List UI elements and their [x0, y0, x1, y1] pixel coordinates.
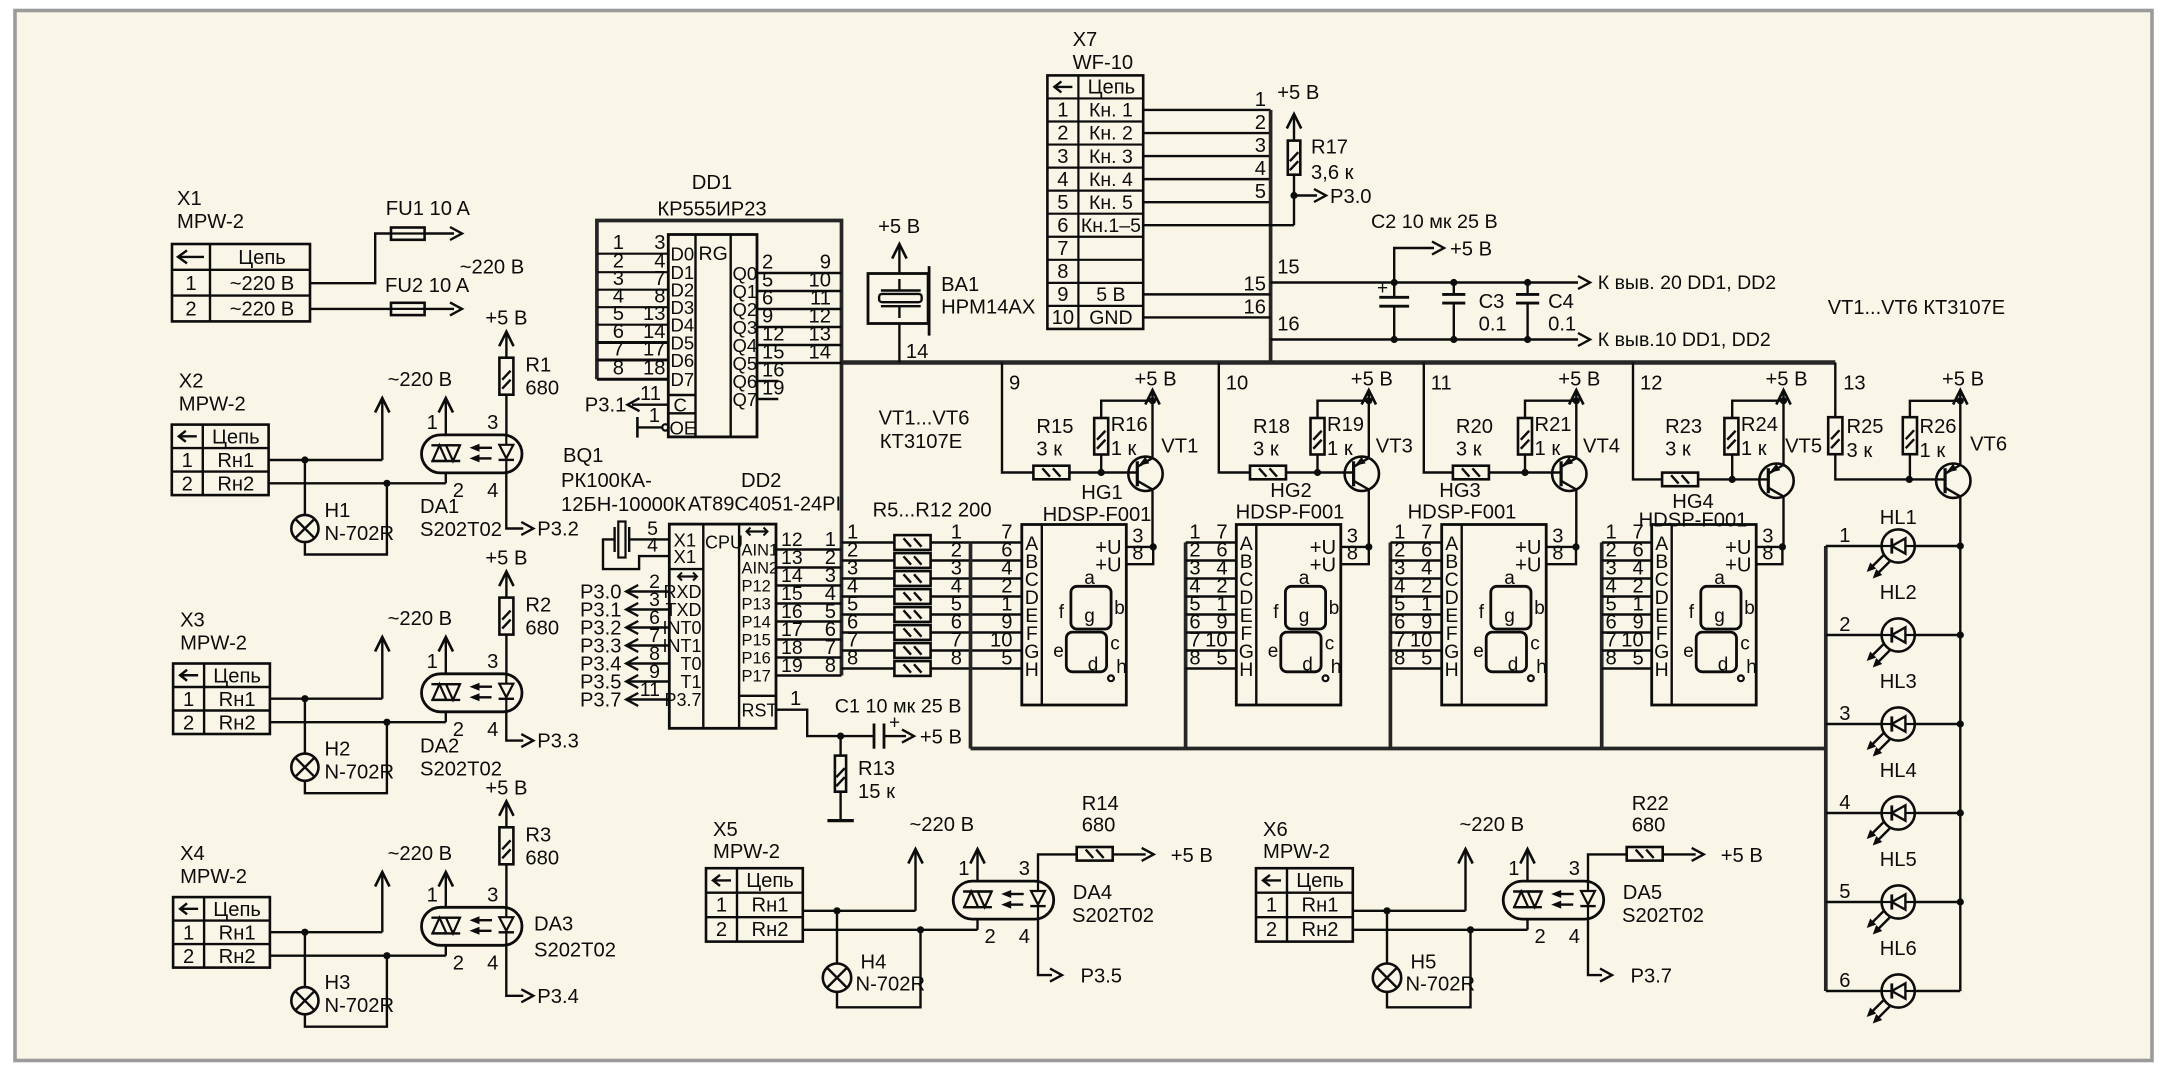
wire +5 В to resistor R2 [505, 574, 507, 598]
svg-text:1: 1 [182, 450, 193, 472]
svg-text:КТ3107Е: КТ3107Е [880, 431, 962, 453]
svg-text:+5 В: +5 В [1351, 369, 1393, 391]
lamp H5 wire tap [1386, 911, 1388, 964]
svg-text:+5 В: +5 В [1558, 369, 1600, 391]
wire +5 В arrow (VT6) [1959, 392, 1961, 401]
wire R7 to HG1 pin [931, 577, 1022, 579]
svg-text:15 к: 15 к [858, 781, 895, 803]
wire X2 pin2 (Rн2) to opto pin2 [269, 482, 446, 484]
wire net 4 to HL4 [1826, 812, 1881, 814]
svg-text:C3: C3 [1479, 291, 1505, 313]
svg-text:12: 12 [1640, 373, 1662, 395]
resistor R25 [1828, 417, 1842, 454]
wire DD1 output Q7 stub [757, 398, 778, 400]
connector X5 table [706, 868, 803, 941]
wire C2 to +5 В arrow [1394, 248, 1434, 283]
svg-text:4: 4 [1255, 158, 1266, 180]
svg-text:1 к: 1 к [1535, 438, 1561, 460]
LED HL5 [1882, 885, 1915, 918]
svg-text:Rн1: Rн1 [752, 895, 789, 917]
svg-text:+5 В: +5 В [1721, 845, 1763, 867]
svg-text:b: b [1534, 598, 1545, 619]
svg-text:g: g [1299, 606, 1310, 627]
lamp H3 wire tap [304, 932, 306, 987]
svg-text:f: f [1273, 602, 1279, 623]
svg-text:RG: RG [699, 243, 728, 265]
svg-text:+5 В: +5 В [1942, 369, 1984, 391]
svg-text:BQ1: BQ1 [563, 445, 603, 467]
LED HL3 [1882, 707, 1915, 740]
svg-text:N-702R: N-702R [325, 523, 395, 545]
wire X4 pin2 (Rн2) to opto pin2 [270, 955, 446, 957]
svg-text:DD2: DD2 [741, 470, 781, 492]
svg-text:+U: +U [1095, 555, 1121, 577]
wire R5 to HG1 pin [931, 541, 1022, 543]
svg-text:HL5: HL5 [1880, 849, 1917, 871]
wire X7 Кн.1–5 to R17 [1143, 224, 1294, 226]
svg-text:+5 В: +5 В [1171, 845, 1213, 867]
wire DD2 P16 to bus (net 7) [776, 656, 842, 658]
wire HL3 to collector rail [1916, 723, 1960, 725]
svg-text:2: 2 [185, 299, 196, 321]
svg-text:+5 В: +5 В [878, 216, 920, 238]
wire VT6 emitter [1959, 401, 1961, 465]
svg-text:X1: X1 [674, 546, 697, 567]
wire DD2 P13 to bus (net 4) [776, 602, 842, 604]
svg-text:10: 10 [1052, 307, 1074, 329]
wire resistor R3 to opto pin3 [505, 864, 507, 907]
wire ~220 arrow left (X3) [381, 639, 383, 699]
wire DD2 P17 to bus (net 8) [776, 674, 842, 676]
svg-text:c: c [1110, 634, 1120, 655]
wire net 3 to HG4 pin 4 [1602, 577, 1652, 579]
svg-text:18: 18 [643, 358, 665, 380]
svg-text:~220 В: ~220 В [1460, 814, 1525, 836]
wire HG1 +U pin8 [1126, 547, 1153, 564]
wire net 5 bus to R9 [842, 613, 895, 615]
svg-text:R2: R2 [525, 595, 551, 617]
svg-text:BA1: BA1 [941, 274, 979, 296]
svg-text:X3: X3 [180, 610, 205, 632]
svg-text:680: 680 [525, 378, 559, 400]
resistor R2 [499, 598, 513, 635]
wire X5 pin2 (Rн2) to opto pin2 [803, 929, 978, 931]
svg-text:MPW-2: MPW-2 [180, 866, 247, 888]
svg-text:1: 1 [185, 273, 196, 295]
svg-text:2: 2 [1839, 614, 1850, 636]
resistor R19 [1311, 418, 1325, 455]
optocoupler DA1 [422, 435, 523, 473]
svg-text:DA2: DA2 [420, 736, 459, 758]
wire R16 top to +5 В [1101, 401, 1152, 418]
svg-text:VT1: VT1 [1161, 436, 1198, 458]
wire opto pin1 to ~220 arrow (X5) [976, 851, 978, 881]
svg-text:DA1: DA1 [420, 496, 459, 518]
bus frame DD1 (thick) [597, 221, 842, 676]
svg-text:HG3: HG3 [1439, 480, 1481, 502]
wire net 6 to HL6 [1826, 990, 1881, 992]
resistor R10 [894, 625, 930, 640]
svg-text:Цепь: Цепь [212, 427, 260, 449]
svg-text:HL3: HL3 [1880, 671, 1917, 693]
wire opto pin4 to P3.7 [1588, 919, 1602, 975]
resistor R11 [894, 643, 930, 658]
svg-text:g: g [1504, 606, 1515, 627]
svg-text:~220 В: ~220 В [230, 273, 295, 295]
resistor R26 [1903, 417, 1917, 454]
main bus (thick) [842, 360, 1836, 365]
wire HL4 to collector rail [1916, 812, 1960, 814]
svg-text:680: 680 [525, 618, 559, 640]
wire net 1 to HG4 pin 7 [1602, 541, 1652, 543]
svg-text:h: h [1116, 657, 1127, 678]
svg-text:MPW-2: MPW-2 [1263, 841, 1330, 863]
wire DD2 P3.7 to P3.7 [626, 698, 669, 700]
display HG4 digit glyph [1701, 586, 1741, 629]
wire net 16 to К выв.10 [1271, 338, 1578, 340]
transistor VT6 [1936, 464, 1970, 498]
wire R26 bottom to junction [1909, 454, 1911, 479]
svg-text:HDSP-F001: HDSP-F001 [1236, 502, 1345, 524]
wire R17 bottom junction to Кн.1–5 [1293, 175, 1295, 226]
wire X7 Кн.1 to bus (net 1) [1143, 109, 1270, 111]
svg-text:3 к: 3 к [1253, 438, 1279, 460]
wire DD1 input D7 (net 8) [597, 378, 668, 381]
svg-text:5: 5 [1255, 181, 1266, 203]
optocoupler DA5 [1503, 881, 1604, 919]
svg-text:4: 4 [487, 480, 498, 502]
svg-text:1: 1 [649, 405, 660, 427]
svg-text:+5 В: +5 В [485, 777, 527, 799]
wire net 3 to HL3 [1826, 723, 1881, 725]
wire VT5 emitter [1782, 401, 1784, 465]
svg-text:Rн2: Rн2 [219, 946, 256, 968]
svg-text:5: 5 [1421, 648, 1432, 670]
resistor R14 [1077, 847, 1113, 861]
wire net 3 bus to R7 [842, 577, 895, 579]
svg-text:8: 8 [825, 655, 836, 677]
svg-text:13: 13 [1843, 373, 1865, 395]
capacitor C2 (polarized) [1393, 283, 1395, 298]
svg-text:3: 3 [1255, 135, 1266, 157]
svg-text:3 к: 3 к [1456, 438, 1482, 460]
svg-text:+5 В: +5 В [1135, 369, 1177, 391]
svg-text:MPW-2: MPW-2 [177, 211, 244, 233]
bus vertical for HG3 (thick) [1389, 543, 1393, 749]
svg-text:8: 8 [951, 648, 962, 670]
wire DD2 P12 to bus (net 3) [776, 584, 842, 586]
wire R12 to HG1 pin [931, 667, 1022, 669]
wire R19 bottom to junction [1316, 455, 1318, 473]
svg-text:~220 В: ~220 В [230, 299, 295, 321]
svg-text:+: + [1377, 278, 1388, 299]
wire +5 В to resistor R1 [505, 334, 507, 358]
svg-text:1: 1 [427, 412, 438, 434]
svg-text:HG1: HG1 [1081, 482, 1123, 504]
svg-text:C: C [674, 395, 687, 416]
resistor R20 [1453, 466, 1489, 480]
resistor R18 [1250, 466, 1286, 480]
wire opto pin4 to P3.5 [1038, 919, 1052, 975]
svg-text:3,6 к: 3,6 к [1311, 162, 1354, 184]
wire DD1 output Q6 stub [757, 380, 778, 382]
display HG1 body [1022, 525, 1127, 706]
wire R9 to HG1 pin [931, 613, 1022, 615]
wire X4 pin1 (Rн1) to ~220 line [270, 931, 382, 933]
wire net 6 to HG3 pin 9 [1390, 631, 1441, 633]
svg-text:Rн1: Rн1 [219, 689, 256, 711]
wire HG2 +U pin3 [1341, 546, 1369, 548]
svg-text:R18: R18 [1253, 416, 1290, 438]
svg-text:~220 В: ~220 В [388, 369, 453, 391]
wire R24 bottom to junction [1731, 455, 1733, 480]
wire DD2 INT0 to P3.2 [626, 626, 669, 628]
connector X7 table [1047, 75, 1143, 329]
LED HL4 emission arrows [1871, 822, 1884, 835]
svg-text:1 к: 1 к [1920, 440, 1946, 462]
wire bus tap net 10 [1219, 363, 1250, 473]
svg-text:f: f [1479, 602, 1485, 623]
svg-text:h: h [1331, 657, 1342, 678]
wire R24 top to +5 В [1732, 401, 1783, 418]
svg-text:2: 2 [1535, 926, 1546, 948]
svg-text:4: 4 [1569, 926, 1580, 948]
svg-text:d: d [1088, 655, 1099, 676]
svg-text:~220 В: ~220 В [388, 843, 453, 865]
svg-text:Кн. 5: Кн. 5 [1089, 192, 1133, 214]
svg-text:S202T02: S202T02 [1622, 905, 1704, 927]
svg-text:C2 10 мк 25 В: C2 10 мк 25 В [1371, 211, 1498, 233]
wire +5 В arrow (VT5) [1782, 392, 1784, 401]
wire DD1 input D1 (net 2) [597, 271, 668, 273]
svg-text:Rн2: Rн2 [217, 474, 254, 496]
svg-text:P15: P15 [742, 632, 771, 650]
wire X7 Кн.3 to bus (net 3) [1143, 155, 1270, 157]
wire HG4 +U pin8 [1756, 547, 1782, 564]
wire RST junction to R13 [839, 736, 841, 756]
wire net 6 to HG2 pin 9 [1186, 631, 1237, 633]
wire DD1 input D5 (net 6) [597, 341, 668, 344]
svg-text:H: H [1655, 659, 1669, 681]
IC DD2 bidirectional mark right [747, 530, 768, 532]
display HG2 digit glyph [1285, 586, 1325, 629]
svg-text:H5: H5 [1411, 952, 1437, 974]
svg-text:3: 3 [487, 412, 498, 434]
optocoupler DA3 [422, 907, 523, 945]
svg-text:INT1: INT1 [662, 636, 701, 656]
wire HG3 +U pin8 [1546, 547, 1576, 564]
svg-text:H4: H4 [861, 952, 887, 974]
wire VT6 collector rail [1959, 546, 1961, 991]
svg-text:H: H [1025, 659, 1039, 681]
wire +5 В arrow (VT4) [1575, 392, 1577, 401]
wire DD2 P14 to bus (net 5) [776, 620, 842, 622]
svg-text:0.1: 0.1 [1479, 314, 1507, 336]
svg-text:INT0: INT0 [662, 618, 701, 638]
svg-text:C1 10 мк 25 В: C1 10 мк 25 В [835, 696, 962, 718]
resistor R8 [894, 589, 930, 604]
svg-text:b: b [1744, 598, 1755, 619]
svg-text:Цепь: Цепь [746, 870, 794, 892]
wire resistor R1 to opto pin3 [505, 395, 507, 435]
wire BA1 to main bus (net 14) [898, 324, 900, 363]
wire +5 В to resistor R3 [505, 803, 507, 827]
wire net 4 to HG3 pin 2 [1390, 595, 1441, 597]
wire X7 GND to bus (net 16) [1143, 316, 1270, 318]
wire DD2 RST pin1 [776, 710, 874, 736]
svg-text:HDSP-F001: HDSP-F001 [1408, 502, 1517, 524]
svg-text:Цепь: Цепь [238, 247, 286, 269]
svg-text:HDSP-F001: HDSP-F001 [1043, 504, 1152, 526]
resistor R9 [894, 607, 930, 622]
svg-text:2: 2 [183, 946, 194, 968]
svg-text:P14: P14 [742, 614, 771, 632]
svg-text:680: 680 [1082, 815, 1116, 837]
svg-text:11: 11 [1431, 373, 1452, 395]
optocoupler DA2 [422, 674, 523, 712]
svg-text:8: 8 [1057, 261, 1068, 283]
svg-text:H3: H3 [325, 972, 351, 994]
resistor R7 [894, 571, 930, 586]
svg-text:4: 4 [487, 952, 498, 974]
wire HL6 to collector rail [1916, 990, 1960, 992]
wire net 2 to HG3 pin 6 [1390, 559, 1441, 561]
wire net 8 to HG2 pin 5 [1186, 667, 1237, 669]
svg-text:4: 4 [487, 719, 498, 741]
svg-text:1: 1 [958, 858, 969, 880]
svg-text:10: 10 [1226, 373, 1248, 395]
svg-text:КР555ИР23: КР555ИР23 [657, 199, 766, 221]
wire opto pin4 to P3.2 [506, 473, 523, 529]
svg-text:T1: T1 [680, 672, 701, 692]
svg-text:8: 8 [1552, 543, 1563, 565]
wire net 7 to HG4 pin 10 [1602, 649, 1652, 651]
svg-text:D6: D6 [671, 350, 695, 371]
lamp H5 [1373, 964, 1401, 992]
wire +5 В arrow (VT3) [1368, 392, 1370, 401]
svg-text:4: 4 [1057, 169, 1068, 191]
svg-text:R16: R16 [1111, 414, 1148, 436]
svg-text:3: 3 [487, 884, 498, 906]
wire DD1 output Q0 (net 9) [757, 272, 842, 274]
svg-text:e: e [1053, 641, 1064, 662]
LED HL6 emission arrows [1871, 1000, 1884, 1013]
resistor R12 [894, 661, 930, 676]
svg-text:Цепь: Цепь [213, 899, 261, 921]
svg-text:~220 В: ~220 В [460, 256, 525, 278]
wire lamp H4 bottom loop [837, 930, 921, 1008]
wire R22 to +5 В [1663, 853, 1696, 855]
display HG2 body [1236, 525, 1341, 706]
transistor VT3 [1345, 457, 1379, 491]
svg-text:P16: P16 [742, 650, 771, 668]
svg-text:R14: R14 [1082, 793, 1119, 815]
bus horizontal below displays (thick) [971, 747, 1826, 751]
lamp H1 wire tap [304, 460, 306, 515]
wire R25 to VT6 base junction [1835, 454, 1945, 479]
svg-text:Rн2: Rн2 [219, 713, 256, 735]
wire DD1 input D6 (net 7) [597, 359, 668, 362]
resistor R6 [894, 553, 930, 568]
LED HL4 [1882, 796, 1915, 829]
svg-text:12БН-10000К: 12БН-10000К [561, 494, 686, 516]
wire DD2 TXD to P3.1 [626, 608, 669, 610]
wire DD1 output Q2 (net 11) [757, 308, 842, 310]
wire bus end net 13 to R25 [1834, 363, 1836, 418]
wire lamp H3 bottom loop [305, 956, 387, 1027]
wire DD1 input D4 (net 5) [597, 324, 668, 326]
svg-text:8: 8 [1347, 543, 1358, 565]
svg-text:P3.7: P3.7 [664, 690, 701, 710]
svg-text:c: c [1740, 634, 1750, 655]
svg-text:R24: R24 [1741, 414, 1778, 436]
wire DD1 pin11 C to P3.1 [632, 404, 668, 406]
svg-text:c: c [1325, 634, 1335, 655]
capacitor C1 [873, 724, 876, 749]
svg-text:AT89C4051-24PI: AT89C4051-24PI [688, 494, 841, 516]
svg-text:3: 3 [487, 651, 498, 673]
svg-text:h: h [1536, 657, 1547, 678]
svg-text:H: H [1239, 659, 1253, 681]
wire opto pin4 to P3.4 [506, 945, 523, 996]
wire opto pin1 to ~220 arrow (X4) [445, 874, 447, 907]
svg-text:VT6: VT6 [1970, 433, 2007, 455]
wire X6 pin1 (Rн1) to ~220 line [1353, 910, 1466, 912]
svg-text:FU1 10 A: FU1 10 A [386, 198, 471, 220]
wire X7 5В to bus (net 15) [1143, 293, 1270, 295]
svg-text:P17: P17 [742, 668, 771, 686]
svg-text:16: 16 [1244, 296, 1266, 318]
svg-text:Rн1: Rн1 [1302, 895, 1339, 917]
svg-text:R23: R23 [1665, 416, 1702, 438]
svg-text:VT3: VT3 [1376, 436, 1413, 458]
svg-text:РК100КА-: РК100КА- [561, 470, 652, 492]
wire DD1 output Q5 (net 14) [757, 362, 842, 364]
resistor R5 [894, 535, 930, 550]
svg-text:S202T02: S202T02 [420, 519, 502, 541]
wire ~220 arrow (X6) [1464, 851, 1466, 911]
svg-text:2: 2 [183, 713, 194, 735]
transistor VT5 [1759, 464, 1793, 498]
resistor R13 [835, 756, 846, 792]
svg-text:+U: +U [1515, 555, 1541, 577]
svg-text:R21: R21 [1535, 414, 1572, 436]
svg-text:HL4: HL4 [1880, 760, 1917, 782]
svg-text:3: 3 [1057, 146, 1068, 168]
wire net 5 to HL5 [1826, 901, 1881, 903]
LED HL2 emission arrows [1871, 644, 1884, 657]
svg-text:OE: OE [670, 418, 697, 439]
svg-text:R1: R1 [525, 355, 551, 377]
wire HL1 to collector rail [1916, 545, 1960, 547]
wire net 8 bus to R12 [842, 667, 895, 669]
svg-text:P3.3: P3.3 [537, 731, 579, 753]
svg-text:0.1: 0.1 [1548, 314, 1576, 336]
svg-text:DA4: DA4 [1073, 882, 1112, 904]
svg-text:+5 В: +5 В [1766, 369, 1808, 391]
wire X7 Кн.4 to bus (net 4) [1143, 178, 1270, 180]
wire ~220 arrow left (X4) [381, 874, 383, 932]
wire HG1 +U pin3 [1126, 546, 1153, 548]
wire opto pin1 to ~220 arrow (X3) [445, 639, 447, 674]
lamp H4 [823, 964, 851, 992]
svg-text:К выв.10 DD1, DD2: К выв.10 DD1, DD2 [1598, 329, 1771, 351]
display HG4 body [1652, 525, 1757, 706]
svg-text:Rн1: Rн1 [217, 450, 254, 472]
svg-text:X4: X4 [180, 843, 205, 865]
LED HL5 emission arrows [1871, 911, 1884, 924]
wire DD2 P15 to bus (net 6) [776, 638, 842, 640]
